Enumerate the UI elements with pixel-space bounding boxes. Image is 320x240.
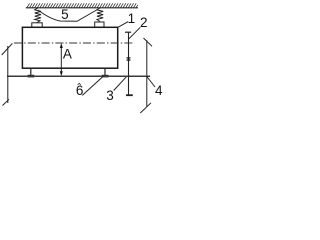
svg-text:1: 1 xyxy=(128,11,136,26)
svg-text:2: 2 xyxy=(140,15,148,30)
svg-text:3: 3 xyxy=(106,88,114,103)
svg-text:5: 5 xyxy=(61,7,69,22)
svg-text:6: 6 xyxy=(76,83,84,98)
svg-text:A: A xyxy=(63,47,72,62)
svg-text:4: 4 xyxy=(155,83,163,98)
